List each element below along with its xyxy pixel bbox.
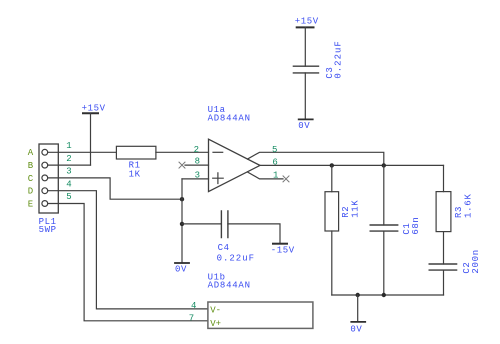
svg-text:AD844AN: AD844AN [208,113,251,123]
wire R3 top [443,165,445,191]
op-amp U1b power box [208,302,313,328]
resistor R3 [436,192,451,232]
wire pin3 row [48,178,182,199]
no-connect X pin 8 [179,162,185,168]
svg-text:2: 2 [194,145,199,155]
wire C2 bottom [443,270,445,295]
connector PL1 pin circle 3 [42,175,48,181]
svg-text:6: 6 [272,158,277,168]
resistor R2 [325,192,339,231]
svg-text:5WP: 5WP [39,225,57,235]
svg-text:+15V: +15V [82,103,106,113]
svg-text:E: E [28,199,33,209]
wire pin8 stub [185,164,209,166]
svg-text:C4: C4 [218,243,230,253]
connector PL1 pin circle 4 [42,188,48,194]
wire op-amp pin5 stub [248,152,384,165]
svg-text:0V: 0V [298,121,310,131]
power +15V left bar [83,112,98,114]
wire pin2 row [48,164,91,166]
wire C1 bottom [383,231,385,295]
svg-text:B: B [28,161,34,171]
wire C4 left [182,223,221,225]
svg-text:3: 3 [195,170,200,180]
wire C3 top [304,27,306,66]
svg-text:0V: 0V [175,264,187,274]
wire ground stub [357,295,359,322]
svg-text:V-: V- [210,305,221,315]
node junction dot C1 bottom [382,293,386,297]
capacitor C1 [370,225,398,231]
svg-text:R3: R3 [454,206,464,218]
svg-text:3: 3 [66,167,71,177]
op-amp plus sign [213,173,224,184]
wire C4 right to -15V [228,224,280,244]
node junction dot ground tap [356,293,360,297]
ground bar (bottom 0V) [351,321,365,323]
svg-text:0V: 0V [350,324,362,334]
svg-text:V+: V+ [210,319,221,329]
wire pin5 row to U1b V+ [48,204,208,321]
svg-text:200n: 200n [471,249,481,273]
node junction dot R2 top [330,163,334,167]
svg-text:D: D [28,187,33,197]
resistor R1 [116,146,155,159]
wire op-amp pin1 stub [248,172,284,179]
capacitor C2 [429,264,456,270]
op-amp U1a triangle [209,139,261,191]
svg-text:68n: 68n [411,217,421,235]
capacitor C3 [293,66,318,73]
connector PL1 pin circle 5 [42,201,48,207]
svg-text:1.6K: 1.6K [464,194,474,219]
node junction dot at vertical/pin3 [180,197,184,201]
wire R2 top [331,165,333,191]
wire C1 top [383,165,385,225]
svg-text:1: 1 [66,141,71,151]
wire pin1 to R1 [48,151,117,153]
ground bar (C3 0V) [299,118,313,120]
power +15V bar (C3) [297,26,314,28]
svg-text:7: 7 [189,313,194,323]
connector PL1 body [39,144,58,213]
svg-text:A: A [28,148,34,158]
svg-text:5: 5 [66,192,71,202]
wire op-amp pin6 output [260,164,444,166]
op-amp minus sign [213,151,223,153]
wire bottom rail [332,294,444,296]
svg-text:4: 4 [191,301,196,311]
svg-text:11K: 11K [351,200,361,218]
wire R3 to C2 [443,232,445,264]
svg-text:AD844AN: AD844AN [208,281,251,291]
wire R1 to op-amp pin 2 [156,151,209,153]
wire pin4 row to U1b V- [48,191,208,309]
wire C3 bottom [304,73,306,120]
capacitor C4 [221,211,228,238]
no-connect X pin 1 [283,176,289,182]
ground bar (op-amp node 0V) [175,262,189,264]
svg-text:2: 2 [66,154,71,164]
connector PL1 pin circle 1 [42,149,48,155]
svg-text:R2: R2 [341,206,351,218]
svg-text:1: 1 [273,170,278,180]
wire +15V to pin2 row [90,113,92,165]
node junction dot C4 tap [180,222,184,226]
svg-text:0.22uF: 0.22uF [333,41,343,79]
svg-text:+15V: +15V [295,16,319,26]
node junction dot C1 top [382,163,386,167]
svg-text:-15V: -15V [271,246,295,256]
svg-text:4: 4 [66,179,71,189]
svg-text:C: C [28,174,34,184]
svg-text:5: 5 [272,145,277,155]
svg-text:0.22uF: 0.22uF [217,253,255,263]
wire R2 bottom [331,231,333,295]
power -15V bar [273,243,287,245]
wire op-amp pin3 stub [182,178,209,180]
svg-text:1K: 1K [129,169,141,179]
wire ground vertical (op-amp + input node) [181,179,183,263]
connector PL1 pin circle 2 [42,162,48,168]
